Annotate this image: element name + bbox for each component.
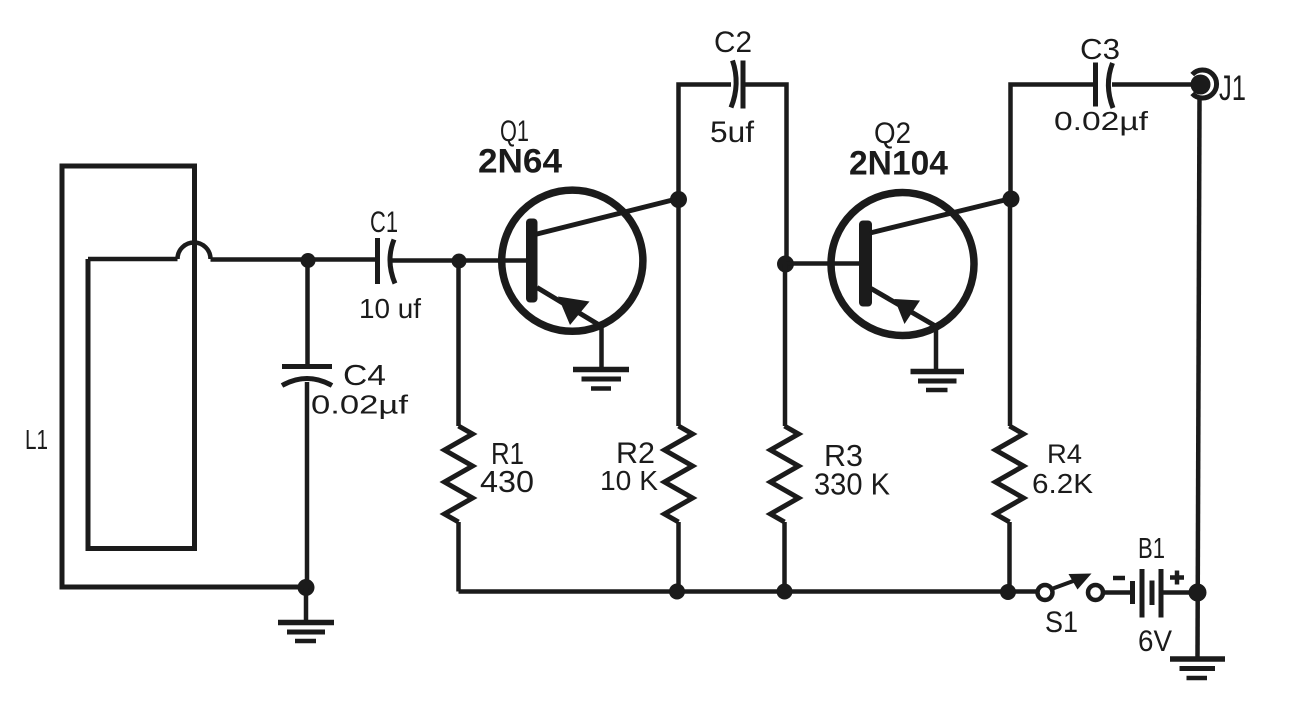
node: junction dot Q2 collector / C3 / R4 — [1003, 191, 1020, 208]
inductor L1 loop antenna outer turn — [62, 166, 306, 587]
node: junction dot at Q1 base / R1 tap — [452, 254, 467, 269]
wire: right rail J1 down to ground — [1198, 99, 1200, 659]
wire: C2 right leg to Q2 base — [743, 85, 787, 264]
capacitor C3 curved plate — [1108, 63, 1113, 108]
svg-text:10 uf: 10 uf — [359, 293, 421, 324]
wire: Q2 emitter to ground — [934, 324, 939, 371]
node: junction dot Q2 base / R3 tap — [777, 256, 794, 273]
capacitor C1 curved plate — [390, 240, 395, 284]
svg-text:0.02µf: 0.02µf — [311, 390, 409, 420]
svg-text:2N104: 2N104 — [849, 145, 948, 183]
switch S1 arm — [1052, 580, 1077, 589]
resistor R3 bottom wire — [782, 522, 787, 592]
svg-text:10 K: 10 K — [600, 465, 658, 496]
capacitor C4 curved plate — [282, 379, 332, 386]
wire: bottom bus — [459, 589, 1039, 594]
ground symbol (Q2 emitter) — [911, 372, 965, 391]
svg-text:C1: C1 — [370, 206, 398, 239]
wire: C3 left leg — [1011, 85, 1096, 199]
svg-text:430: 430 — [480, 464, 534, 499]
wire: Q2 base wire — [786, 261, 860, 266]
resistor R2 — [665, 426, 693, 522]
transistor Q2 emitter arrow — [895, 299, 921, 324]
svg-text:6V: 6V — [1138, 625, 1172, 658]
svg-text:L1: L1 — [25, 424, 48, 455]
wire hop crossover over L1 right side — [178, 243, 211, 260]
transistor Q2 circle — [831, 193, 974, 336]
wire: C2 left leg — [679, 85, 732, 199]
battery B1 plate 2 (long) — [1140, 569, 1145, 618]
svg-text:5uf: 5uf — [710, 116, 755, 149]
wire: C4 branch upper — [305, 261, 310, 367]
inductor L1 inner turn top wire — [88, 257, 178, 262]
svg-text:R4: R4 — [1047, 439, 1082, 469]
transistor Q1 collector line — [535, 199, 679, 235]
battery B1 minus sign — [1113, 576, 1125, 581]
svg-text:C3: C3 — [1080, 34, 1120, 66]
transistor Q2 base bar — [859, 221, 872, 307]
resistor R4 top wire — [1008, 199, 1013, 427]
capacitor C2 curved plate — [731, 61, 736, 108]
node: junction dot R4 bottom — [1000, 584, 1016, 600]
switch S1 arm arrowhead — [1069, 574, 1092, 590]
jack J1 center contact — [1191, 75, 1211, 95]
svg-text:6.2K: 6.2K — [1032, 468, 1093, 499]
svg-text:B1: B1 — [1138, 533, 1165, 565]
ground symbol (Q1 emitter) — [573, 370, 629, 389]
transistor Q1 emitter line — [537, 288, 603, 328]
switch S1 left terminal — [1038, 585, 1053, 600]
node: junction dot R2 bottom — [669, 584, 685, 600]
switch S1 right terminal — [1088, 585, 1103, 600]
svg-text:330 K: 330 K — [814, 467, 890, 502]
wire: C1 to Q1 base — [391, 258, 528, 263]
transistor Q2 emitter line — [871, 289, 935, 326]
node: junction dot battery positive / right rail — [1189, 584, 1207, 602]
transistor Q1 circle — [502, 190, 643, 331]
svg-text:2N64: 2N64 — [478, 143, 562, 181]
resistor R1 top wire — [456, 261, 461, 426]
battery B1 plate 3 (short) — [1150, 581, 1155, 606]
transistor Q2 collector line — [870, 199, 1011, 234]
wire: ground stub below L1 bottom — [304, 588, 309, 622]
battery B1 plate 1 (short) — [1130, 581, 1135, 604]
wire: C3 to J1 — [1112, 82, 1195, 87]
resistor R2 top wire — [676, 199, 681, 427]
capacitor C1 straight plate — [375, 238, 380, 284]
resistor R1 bottom wire — [456, 522, 461, 592]
svg-text:C2: C2 — [714, 26, 752, 59]
capacitor C4 straight plate — [282, 364, 332, 369]
svg-text:0.02µf: 0.02µf — [1054, 106, 1149, 136]
battery B1 plus sign — [1170, 571, 1184, 585]
resistor R3 — [771, 426, 799, 522]
ground symbol (right rail bottom) — [1170, 659, 1225, 678]
node: junction dot Q1 collector / C2 / R2 — [670, 191, 687, 208]
capacitor C2 straight plate — [741, 61, 746, 109]
wire: battery to right rail — [1161, 590, 1198, 595]
transistor Q1 base bar — [526, 219, 538, 303]
wire: S1 to battery — [1102, 590, 1131, 595]
wire: C4 branch lower — [305, 382, 310, 587]
transistor Q1 emitter arrow — [558, 297, 590, 326]
svg-text:C4: C4 — [343, 360, 386, 392]
node: junction dot L1 bottom — [298, 579, 315, 596]
jack J1 outer ring (open at left) — [1192, 70, 1216, 98]
svg-text:J1: J1 — [1219, 69, 1246, 108]
battery B1 plate 4 (long) — [1159, 569, 1164, 618]
node: junction dot at C4 tap — [301, 253, 316, 268]
resistor R4 — [996, 426, 1024, 522]
wire: Q1 emitter to ground — [599, 326, 604, 370]
svg-text:S1: S1 — [1045, 606, 1078, 639]
resistor R4 bottom wire — [1007, 522, 1012, 592]
ground symbol (L1/C4) — [278, 623, 334, 642]
capacitor C3 straight plate — [1093, 63, 1098, 107]
wire: hop to C1 left plate — [211, 257, 378, 262]
resistor R3 top wire — [783, 264, 788, 427]
resistor R2 bottom wire — [676, 522, 681, 592]
resistor R1 — [445, 426, 473, 522]
node: junction dot R3 bottom — [777, 584, 793, 600]
